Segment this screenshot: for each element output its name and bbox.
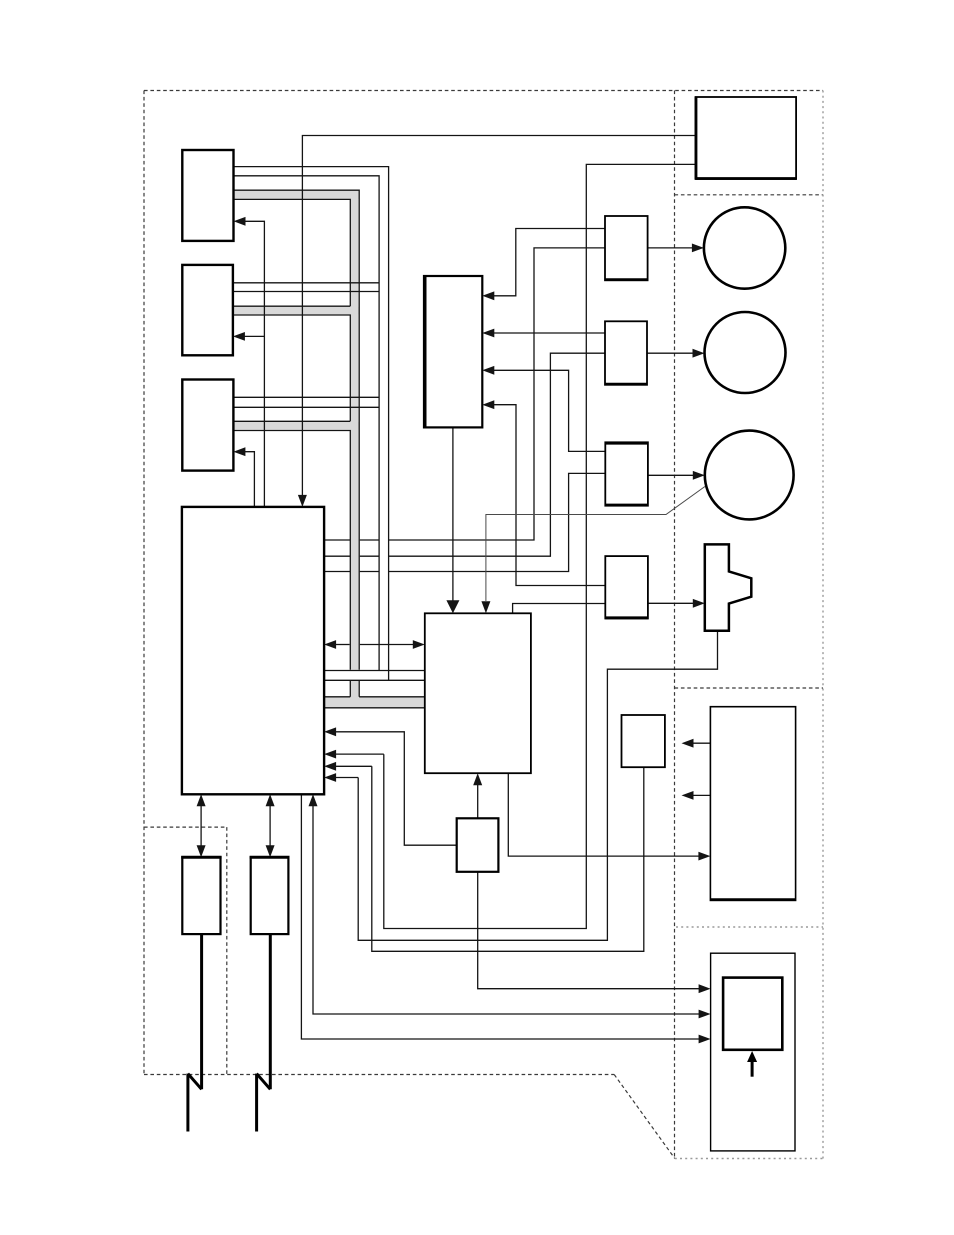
driver up arrow into mux xyxy=(477,783,479,818)
wire CPU to driver box xyxy=(335,732,457,845)
driver up into mux xyxy=(473,773,482,785)
into IF outer box 3 xyxy=(699,1035,711,1044)
bidirectional wire CPU-mux right part xyxy=(360,644,414,646)
bus B2 bottom border xyxy=(233,315,350,421)
CPU big box xyxy=(182,507,324,794)
selector to mux big head xyxy=(446,600,459,613)
antenna dashed box top xyxy=(144,826,227,828)
into selector pin1 xyxy=(482,291,494,300)
into CPU top xyxy=(298,495,307,507)
wire B2 out1 xyxy=(233,282,379,284)
speaker circles xyxy=(704,207,794,519)
outer dotted border right xyxy=(822,91,824,1159)
up into CPU bottom xyxy=(309,794,318,806)
bus B1 bottom border xyxy=(234,199,351,306)
speaker circle 3 xyxy=(705,431,794,520)
bidir left head xyxy=(324,640,336,649)
dashed divider below top-right box xyxy=(675,194,824,196)
wire mux bottom to tall box xyxy=(508,773,700,856)
into IF outer box 2 xyxy=(699,1010,711,1019)
into CPU right pin1 xyxy=(324,750,336,759)
wire driver4 to horn xyxy=(648,602,694,604)
vertical bus right border lower xyxy=(358,681,360,697)
outer dashed border bottom xyxy=(144,1074,614,1076)
wire CPU bottom to IF region third xyxy=(301,794,700,1039)
mux box xyxy=(425,613,531,773)
wire CPU bottom up-arrow to IF region xyxy=(313,805,700,1014)
wire driver4 pin1 net xyxy=(493,405,605,586)
arrow stub into CPU right pin2 xyxy=(335,765,372,767)
wire horn to CPU net xyxy=(358,631,717,941)
into IF outer box 1 xyxy=(699,984,711,993)
wire B1 input from CPU top xyxy=(237,221,264,507)
outer dashed border top xyxy=(144,90,823,92)
wire B3 input from CPU top xyxy=(237,452,254,507)
box B1 xyxy=(182,150,233,241)
antenna bidir heads xyxy=(197,794,206,806)
wire B3 out2 xyxy=(233,406,379,408)
mux bus top border left part xyxy=(324,696,350,698)
wire top-right box lower net xyxy=(384,164,696,928)
speaker circle 1 xyxy=(704,207,785,288)
into selector pin2 xyxy=(482,329,494,338)
driver box xyxy=(457,818,499,872)
wire selector to mux arrow xyxy=(452,427,454,601)
into speaker3 xyxy=(693,471,705,480)
wire B3 out1 xyxy=(233,396,379,398)
into speaker1 xyxy=(692,244,704,253)
IF outer box xyxy=(711,953,795,1151)
mixer box 3 xyxy=(605,442,648,505)
wire mixer2 pin2 net xyxy=(389,353,605,556)
selector narrow box xyxy=(424,276,482,427)
antenna 2 feed xyxy=(269,934,272,1089)
speaker3 net into mux xyxy=(481,601,490,613)
wire mixer3 pin2 net xyxy=(389,473,606,571)
antenna dashed box right xyxy=(226,827,228,1074)
vertical bus lower xyxy=(351,681,359,707)
dotted divider below tall right box region xyxy=(676,926,823,928)
small box 5 xyxy=(622,715,665,767)
mux bus top border right part xyxy=(359,696,425,698)
into selector pin3 xyxy=(482,366,494,375)
into CPU right pin2 xyxy=(324,762,336,771)
mixer box 1 xyxy=(605,216,648,280)
wire B2 out2 xyxy=(233,291,379,293)
bus B1 top border xyxy=(234,190,360,670)
IF inner box xyxy=(723,978,782,1050)
wire mixer1 pin2 net xyxy=(389,248,605,540)
wire driver bottom to IF region xyxy=(478,872,700,989)
horizontal bus into mux xyxy=(324,697,425,707)
vertical bus upper xyxy=(351,191,359,670)
thin light wire: speaker3 feedback to mux xyxy=(486,487,705,602)
wire B1 out1 xyxy=(234,167,389,681)
horn tweeter shape xyxy=(705,544,752,630)
wire mixer3 to speaker3 xyxy=(648,474,694,476)
antenna box 1 xyxy=(182,857,220,934)
speaker circle 2 xyxy=(705,312,786,393)
CPU segment y571 xyxy=(324,571,350,573)
bus fills xyxy=(233,191,425,707)
bus from box B3 xyxy=(233,422,359,430)
tall box out arrow heads xyxy=(682,739,694,748)
antenna bidir arrows xyxy=(200,803,202,848)
driver box 4 xyxy=(605,556,648,618)
dashed divider below circles region xyxy=(675,687,824,689)
arrow wire into CPU right pin1 stub xyxy=(335,753,384,755)
box B3 xyxy=(182,380,233,471)
into CPU right pin3 xyxy=(324,773,336,782)
tall box output arrows xyxy=(690,742,710,744)
top-right box xyxy=(696,97,797,179)
box B2 xyxy=(182,265,233,355)
wire mixer2 pin1 to selector xyxy=(493,332,605,334)
outer dashed border diagonal xyxy=(614,1075,675,1159)
wire driver4 pin2 from mux top xyxy=(513,604,606,614)
bidirectional wire CPU-mux left part xyxy=(335,644,350,646)
into CPU right pin0 xyxy=(324,727,336,736)
vertical bus left border lower xyxy=(349,681,351,697)
outer dashed border left xyxy=(143,91,145,1075)
wire mixer1 pin1 to selector xyxy=(493,229,605,296)
bus B3 top border xyxy=(233,420,350,422)
bus outlines xyxy=(233,190,425,708)
bidir right head xyxy=(413,640,425,649)
wire mixer2 to speaker2 xyxy=(647,352,694,354)
mixer box 2 xyxy=(605,321,647,385)
into tall box xyxy=(698,852,710,861)
CPU segment y556 xyxy=(324,555,350,557)
wire B2 input branch xyxy=(237,335,265,337)
antenna 1 feed xyxy=(200,934,203,1089)
antenna box 2 xyxy=(251,857,289,934)
into selector pin4 xyxy=(482,400,494,409)
bus from box B2 xyxy=(233,307,359,315)
arrow stub into CPU right pin3 xyxy=(335,777,358,779)
power up arrow in IF region xyxy=(747,1051,757,1077)
wire CPU to top-right box upper xyxy=(302,136,695,496)
bus from box B1 xyxy=(234,191,360,199)
inner dashed divider vertical xyxy=(674,91,676,1159)
mux bus bottom border xyxy=(324,707,425,709)
wire CPU-mux data2 xyxy=(324,679,425,681)
into speaker2 xyxy=(693,349,705,358)
dotted border bottom right xyxy=(675,1158,823,1160)
bus B2 top border xyxy=(233,305,350,307)
wire box5 to CPU net xyxy=(372,766,644,951)
wire B1 out2 xyxy=(234,176,380,671)
bus B3 bottom border xyxy=(233,431,350,670)
wire CPU-mux data1 xyxy=(324,670,425,672)
wire mixer3 pin1 to selector xyxy=(493,370,605,451)
tall right box xyxy=(710,707,795,901)
into B1 xyxy=(234,217,246,226)
into horn xyxy=(693,599,705,608)
into B3 xyxy=(233,447,245,456)
CPU segment y540 xyxy=(324,539,350,541)
wire mixer1 to speaker1 xyxy=(648,247,693,249)
into B2 xyxy=(233,332,245,341)
